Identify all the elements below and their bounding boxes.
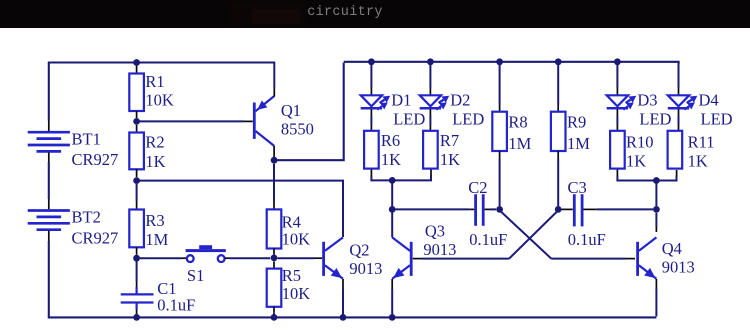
svg-text:Q4: Q4 xyxy=(662,239,682,258)
svg-text:10K: 10K xyxy=(282,284,311,303)
svg-text:10K: 10K xyxy=(282,230,311,249)
svg-text:R9: R9 xyxy=(567,113,586,132)
svg-text:R11: R11 xyxy=(688,132,715,151)
svg-text:10K: 10K xyxy=(145,90,174,109)
svg-text:1K: 1K xyxy=(626,152,646,171)
svg-text:LED: LED xyxy=(701,109,733,128)
svg-text:9013: 9013 xyxy=(349,259,382,278)
svg-text:1K: 1K xyxy=(381,150,401,169)
svg-text:BT1: BT1 xyxy=(72,129,101,148)
svg-text:C2: C2 xyxy=(468,178,487,197)
svg-text:1M: 1M xyxy=(145,230,168,249)
svg-text:CR927: CR927 xyxy=(72,228,119,247)
svg-text:LED: LED xyxy=(393,109,425,128)
svg-text:1K: 1K xyxy=(440,150,460,169)
svg-text:R2: R2 xyxy=(145,133,164,152)
svg-text:C3: C3 xyxy=(568,178,587,197)
svg-text:R7: R7 xyxy=(440,131,459,150)
svg-text:9013: 9013 xyxy=(662,257,695,276)
svg-text:S1: S1 xyxy=(187,266,204,285)
svg-text:R5: R5 xyxy=(282,266,301,285)
svg-text:D3: D3 xyxy=(637,91,657,110)
svg-text:LED: LED xyxy=(639,109,671,128)
svg-text:1K: 1K xyxy=(145,152,165,171)
svg-text:9013: 9013 xyxy=(423,240,456,259)
svg-text:BT2: BT2 xyxy=(72,207,101,226)
svg-text:0.1uF: 0.1uF xyxy=(157,296,195,315)
svg-text:R1: R1 xyxy=(145,72,164,91)
svg-text:D4: D4 xyxy=(699,91,719,110)
svg-text:Q1: Q1 xyxy=(281,101,301,120)
svg-text:CR927: CR927 xyxy=(72,150,119,169)
svg-text:Q2: Q2 xyxy=(349,241,369,260)
svg-text:R3: R3 xyxy=(145,211,164,230)
svg-text:1M: 1M xyxy=(567,134,590,153)
svg-text:0.1uF: 0.1uF xyxy=(469,230,507,249)
svg-text:LED: LED xyxy=(452,109,484,128)
svg-text:0.1uF: 0.1uF xyxy=(568,230,606,249)
svg-text:R10: R10 xyxy=(626,132,654,151)
svg-text:R8: R8 xyxy=(508,113,527,132)
svg-text:8550: 8550 xyxy=(281,119,314,138)
svg-text:1K: 1K xyxy=(688,152,708,171)
svg-text:R6: R6 xyxy=(381,131,400,150)
svg-text:D1: D1 xyxy=(391,91,411,110)
svg-text:1M: 1M xyxy=(508,134,531,153)
svg-text:Q3: Q3 xyxy=(425,222,445,241)
svg-text:D2: D2 xyxy=(450,91,470,110)
